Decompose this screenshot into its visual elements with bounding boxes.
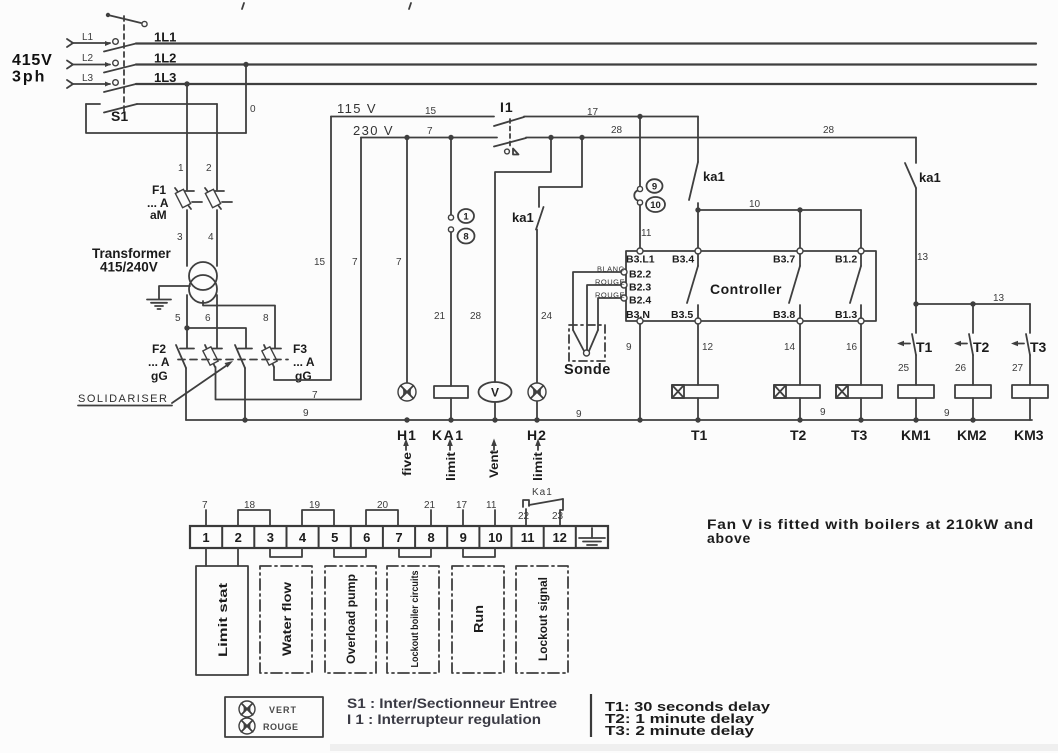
wire S1 box left/bottom [86,104,246,133]
svg-text:F3: F3 [293,342,307,356]
wire 5 [186,295,188,348]
wire T1 coil to rail [697,398,699,420]
svg-text:21: 21 [434,311,446,322]
box Water flow (dashed) [260,566,312,673]
svg-text:28: 28 [823,125,835,136]
scan artifact band bottom [330,744,1058,751]
svg-text:7: 7 [352,257,358,268]
svg-text:Overload pump: Overload pump [344,574,358,664]
svg-text:8: 8 [463,232,468,243]
wire bus 1L3 [136,83,1036,85]
wire 17 drop to terminal 9 [639,117,641,187]
junction rail/T2 [797,417,802,422]
junction 230V / fan V [548,135,553,140]
svg-text:T1: T1 [691,427,708,443]
junction wire 10 [695,207,700,212]
terminal circle 10 [637,200,642,205]
wire 7 from fuse F2 [216,138,362,400]
wire bus 1L1 [136,42,1036,44]
svg-text:Limit stat: Limit stat [216,583,230,657]
timer coil T3 [836,385,882,398]
jumper below terminals 5-6 [334,548,366,557]
switch S1 pole L2 contact [113,60,119,66]
svg-text:28: 28 [611,125,623,136]
svg-text:8: 8 [263,313,269,324]
svg-text:7: 7 [202,500,208,511]
wire T3 coil to rail [860,398,862,420]
label terminal 9 circled [647,179,663,193]
Sonde probe box (dashed) [569,325,605,361]
svg-text:B3.N: B3.N [626,309,650,321]
wire fan V to rail [494,402,496,420]
svg-text:7: 7 [427,126,433,137]
switch S1 pole L3 contact [113,80,119,86]
contact ka1 right blade [905,163,916,188]
svg-text:24: 24 [541,311,553,322]
terminal strip body [190,526,608,548]
svg-text:21: 21 [424,500,436,511]
switch F2 pole 1 terminal [180,348,194,350]
svg-text:9: 9 [626,342,632,353]
svg-text:Sonde: Sonde [564,362,611,378]
terminal B3.4 [672,248,701,266]
svg-text:16: 16 [846,342,858,353]
wire KA1 coil to rail [450,398,452,420]
svg-text:F1: F1 [152,183,166,197]
svg-text:415V: 415V [12,52,53,69]
switch pole 3 blade [235,345,245,368]
terminal B1.2 [835,248,864,266]
wire 21 terminal 8 pigtail [424,500,436,526]
wire F2 pole1 to rail 9 [185,368,187,420]
switch S1 operating handle [106,13,147,27]
contact T1 (timed) [897,304,916,355]
svg-text:9: 9 [820,407,826,418]
wire H2 to rail [536,401,538,420]
arrow H1 function [403,439,409,451]
junction rail/H1 [404,417,409,422]
wire ROUGE 2 [598,298,621,330]
wire 21 KA1 drop lower [450,232,452,386]
mechanical link F2-F3 (dashed) [178,359,288,361]
svg-text:4: 4 [299,530,307,545]
terminal B2.4 [621,295,651,307]
junction wire 5 branch [184,325,189,330]
svg-text:KM1: KM1 [901,427,931,443]
terminal B3.7 [773,248,803,266]
switch I1 actuator symbol [505,149,519,155]
fuse F1 pole 2 [205,188,232,209]
wire T1 contact to KM1 coil [915,355,917,385]
fuse F1 pole 1 [175,188,202,209]
terminal circle 9 [637,186,642,191]
label terminal 10 circled [646,197,665,212]
wire 8 from transformer [203,301,275,348]
Sonde probe tip [573,330,598,356]
svg-text:H1: H1 [397,427,417,443]
wire rail 9 [186,419,1032,421]
timer coil T2 [774,385,820,398]
svg-text:T3: 2 minute delay: T3: 2 minute delay [605,723,755,738]
terminal B3.L1 [626,248,655,266]
wire ka1 mid to B3.4 [697,203,699,251]
stray scan mark right [409,3,411,9]
note Fan V [707,516,1034,546]
svg-text:L3: L3 [82,73,94,84]
switch I1 pole 1 blade [494,117,524,126]
svg-text:KA1: KA1 [432,427,465,443]
svg-text:3: 3 [177,232,183,243]
svg-text:7: 7 [396,257,402,268]
wire 230V line left segment [361,137,497,139]
wire 0 [245,65,247,134]
terminal circle 8 [448,227,453,232]
svg-text:B3.L1: B3.L1 [626,254,655,266]
svg-text:limit: limit [533,452,545,481]
wire 1 [186,84,188,190]
svg-text:Lockout signal: Lockout signal [536,577,550,661]
svg-text:B2.3: B2.3 [629,282,651,294]
contact B3.4-B3.5 [687,254,698,318]
fuse F2 pole 2 terminal [208,348,222,350]
junction 230V / H2 [579,135,584,140]
wire 6 [216,295,218,348]
jumper hook terminals 9-10 [634,191,637,201]
junction rail/T1 [695,417,700,422]
svg-text:Fan V is fitted with boilers a: Fan V is fitted with boilers at 210kW an… [707,516,1034,532]
jumper 20 terminals 6-7 [366,500,398,526]
label Transformer 415/240V [92,246,172,275]
svg-text:10: 10 [650,200,661,211]
svg-text:limit: limit [446,452,458,481]
junction 230V / H1 [404,135,409,140]
wire 24 [536,230,538,384]
svg-text:22: 22 [518,511,530,522]
svg-text:T3: T3 [1030,339,1047,355]
svg-text:9: 9 [303,408,309,419]
fuse F1 label [147,183,169,222]
wire 28 to ka1 contact (H2 branch) [539,138,582,208]
arrow Vent function [491,439,497,451]
fuse F3 pole 4 cartridge [262,347,277,365]
junction 1L2 / wire 0 [243,62,248,67]
svg-text:ROUGE: ROUGE [263,722,299,732]
fuse F2 label [148,342,170,383]
svg-text:115 V: 115 V [337,101,377,116]
svg-text:B3.5: B3.5 [671,309,693,321]
svg-text:14: 14 [784,342,796,353]
jumper below terminals 9-10 [463,548,495,557]
wire S1 pole 4 to wire 2 [137,103,217,105]
legend lamp ROUGE [239,718,299,734]
legend lamp box [225,697,323,737]
svg-text:27: 27 [1012,363,1024,374]
box Run (dashed) [452,566,504,673]
switch S1 pole L2 blade [104,65,136,73]
wire KM2 coil to rail [972,398,974,420]
wire H1 drop [406,138,408,384]
wire transformer core to ground [159,286,190,299]
label terminal 8 circled [458,229,475,244]
junction rail/KA1 [448,417,453,422]
node L3 input [67,73,111,88]
wire KM1 coil to rail [915,398,917,420]
wire 28 fan V drop [495,138,551,383]
svg-text:230 V: 230 V [353,123,394,138]
svg-text:1: 1 [178,163,184,174]
junction rail/KM1 [913,417,918,422]
fan motor V [479,382,512,402]
wire ka1 mid drop [697,117,699,163]
wire 2 [216,104,218,190]
contactor coil KM2 [955,385,991,398]
svg-text:KM3: KM3 [1014,427,1044,443]
svg-text:T1: T1 [916,339,933,355]
fuse F3 label [293,342,315,383]
svg-text:13: 13 [993,293,1005,304]
junction 1L3 / wire 1 [184,81,189,86]
svg-text:five: five [402,452,414,476]
contact ka1 (H2 branch) blade [536,207,544,230]
svg-text:ka1: ka1 [703,169,725,184]
wire 15 from fuse F3 [274,117,331,381]
arrow SOLIDARISER pointer [172,361,233,403]
label 415V 3ph [12,52,53,86]
svg-text:KM2: KM2 [957,427,987,443]
svg-text:11: 11 [641,228,652,239]
wire 115V line left segment [331,116,494,118]
terminal B2.3 [621,282,651,294]
junction rail/T3 [858,417,863,422]
junction rail/pole3 [242,417,247,422]
svg-text:Controller: Controller [710,281,782,297]
svg-text:10: 10 [749,199,761,210]
arrow H2 function [535,439,541,451]
wire 17 terminal 9 pigtail [456,500,468,526]
wire KA1 drop upper [450,138,452,216]
svg-text:2: 2 [235,530,242,545]
svg-text:8: 8 [427,530,434,545]
terminal B1.3 [835,309,864,324]
svg-text:6: 6 [205,313,211,324]
box Limit stat [196,566,248,675]
svg-text:VERT: VERT [269,705,297,715]
switch pole 3 terminal [238,348,252,350]
svg-text:Ka1: Ka1 [532,487,553,498]
wire pole3 to rail 9 [244,368,246,420]
svg-text:Run: Run [472,605,486,633]
svg-text:1L2: 1L2 [154,51,176,66]
wire 11 [639,205,641,251]
wire terminal 2 to Limit stat [237,548,239,566]
svg-text:SOLIDARISER: SOLIDARISER [78,393,168,405]
jumper 19 terminals 4-5 [302,500,334,526]
switch S1 pole L1 blade [104,44,136,52]
arrow KA1 function [447,439,453,451]
lamp H2 [528,383,546,401]
terminal B3.5 [671,309,701,324]
svg-text:1L3: 1L3 [154,70,176,85]
junction rail/H2 [534,417,539,422]
svg-text:above: above [707,530,751,546]
svg-text:23: 23 [552,511,564,522]
wire B3.N to rail 9 [639,324,641,420]
contact Ka1 terminals 11-12 [523,487,563,526]
svg-text:9: 9 [944,408,950,419]
svg-text:H2: H2 [527,427,547,443]
switch S1 pole L1 contact [113,39,119,45]
wire drop to B1.2 [860,210,862,251]
fuse F2 pole 2 blade [205,345,215,367]
contact B1.2-B1.3 [850,254,861,318]
fuse F2 pole 2 cartridge [203,347,218,365]
svg-text:15: 15 [314,257,326,268]
timer coil T1 [672,385,718,398]
wire bus 1L2 [136,63,1036,65]
junction 115V / wire 11 [637,114,642,119]
wire ROUGE 1 [587,285,621,350]
svg-text:5: 5 [331,530,338,545]
svg-text:B2.2: B2.2 [629,269,651,281]
switch I1 pole 2 blade [494,138,526,147]
contactor coil KM3 [1012,385,1048,398]
wire B1.3 to T3 coil [860,324,862,385]
junction rail/KM2 [970,417,975,422]
svg-text:1: 1 [463,212,469,223]
svg-text:B2.4: B2.4 [629,295,651,307]
wire 3 [186,210,188,266]
svg-text:9: 9 [460,530,467,545]
terminal circle 1 [448,215,453,220]
svg-text:S1: S1 [111,108,128,124]
box Lockout signal (dashed) [516,566,568,673]
junction wire 10 / B3.7 [797,207,802,212]
contact T3 (timed) [1011,304,1030,355]
svg-text:10: 10 [488,530,502,545]
svg-text:1L1: 1L1 [154,30,176,45]
junction rail/V [492,417,497,422]
svg-text:T3: T3 [851,427,868,443]
wire B3.5 to T1 coil [697,324,699,385]
contact ka1 mid blade [689,162,698,200]
terminal B2.2 [621,269,651,281]
svg-text:12: 12 [552,530,566,545]
svg-text:28: 28 [470,311,482,322]
label terminal 1 circled [458,209,474,223]
svg-text:B1.3: B1.3 [835,309,857,321]
wire 5 branch to pole 3 [187,328,246,348]
junction 230V / KA1 [448,135,453,140]
svg-text:F2: F2 [152,342,166,356]
wire T3 contact to KM3 coil [1029,355,1031,385]
transformer T secondary winding [189,275,217,303]
svg-text:25: 25 [898,363,910,374]
svg-text:B3.8: B3.8 [773,309,795,321]
svg-text:17: 17 [587,107,599,118]
lamp H1 [398,383,416,401]
svg-text:gG: gG [151,369,168,383]
legend lamp VERT [239,701,297,717]
wire terminal 1 to Limit stat [205,548,207,566]
svg-text:9: 9 [652,182,657,193]
svg-text:Vent: Vent [489,450,501,478]
svg-text:B1.2: B1.2 [835,254,857,266]
switch S1 mechanical link (dashed) [123,16,125,111]
node L2 input [67,53,111,69]
svg-text:T2: T2 [973,339,990,355]
svg-text:5: 5 [175,313,181,324]
svg-text:B3.7: B3.7 [773,254,795,266]
wire T2 contact to KM2 coil [972,355,974,385]
svg-text:B3.4: B3.4 [672,254,694,266]
jumper below terminals 3-4 [270,548,302,557]
svg-text:ka1: ka1 [919,170,941,185]
svg-text:9: 9 [576,409,582,420]
svg-text:Lockout boiler circuits: Lockout boiler circuits [409,570,421,667]
svg-text:1: 1 [202,530,209,545]
svg-text:L2: L2 [82,53,94,64]
svg-text:4: 4 [208,232,214,243]
svg-text:6: 6 [363,530,370,545]
fuse F3 pole 4 terminal [267,348,281,350]
wire ka1 right drop [915,138,917,164]
wire 7 terminal 1 pigtail [202,500,208,526]
terminal B3.8 [773,309,803,324]
svg-text:17: 17 [456,500,468,511]
wire 17 (115V after I1) [524,116,698,118]
svg-text:I1: I1 [500,99,514,115]
switch S1 pole 4 fixed lead [86,103,100,105]
ground terminal symbol [579,528,605,545]
svg-text:S1 : Inter/Sectionneur Entree: S1 : Inter/Sectionneur Entree [347,696,558,711]
svg-text:11: 11 [521,530,535,545]
jumper below terminals 7-8 [399,548,431,557]
contactor coil KM1 [898,385,934,398]
switch S1 pole L3 blade [104,84,136,92]
switch F2 pole 1 blade [176,345,186,368]
svg-text:3ph: 3ph [12,69,46,86]
switch I1 link (dashed) [509,119,511,148]
node L1 input [67,32,111,47]
svg-text:V: V [491,386,499,400]
svg-text:T2: T2 [790,427,807,443]
junction 13 rail / T1 [913,301,918,306]
wire B3.8 to T2 coil [799,324,801,385]
svg-text:15: 15 [425,106,437,117]
svg-text:415/240V: 415/240V [100,260,158,275]
wire 28 (230V after I1) [526,137,916,139]
svg-text:7: 7 [312,390,318,401]
wire drop to B3.7 [799,210,801,251]
wire T2 coil to rail [799,398,801,420]
wire 4 [216,210,218,266]
wire KM3 coil to rail [1029,398,1031,420]
box Lockout boiler circuits (dashed) [387,566,439,673]
svg-text:L1: L1 [82,32,94,43]
wire BLANC [573,272,621,330]
contact B3.7-B3.8 [789,254,800,318]
box Overload pump (dashed) [325,566,376,673]
svg-text:13: 13 [917,252,929,263]
transformer T primary winding [189,262,217,290]
wire 11 terminal 10 pigtail [486,500,497,526]
fuse F3 pole 4 blade [264,345,274,367]
wire 13 [915,188,917,304]
svg-text:12: 12 [702,342,714,353]
jumper 18 terminals 2-3 [238,500,270,526]
svg-text:0: 0 [250,104,256,115]
svg-text:Water flow: Water flow [280,581,294,656]
